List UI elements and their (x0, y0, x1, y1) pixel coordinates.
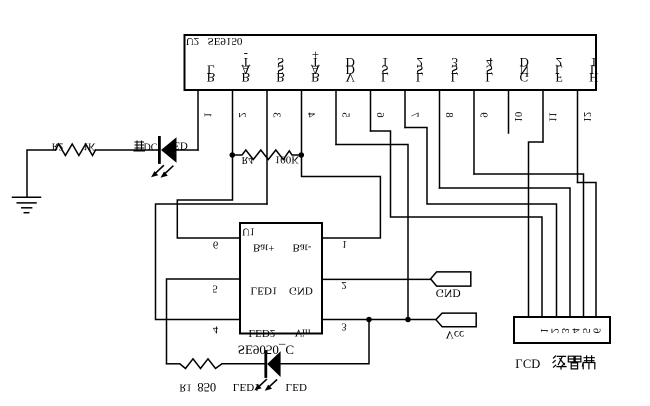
pin 4 stub U2 (302, 90, 317, 154)
svg-text:LS1: LS1 (381, 55, 389, 85)
LED LED1 emission arrows (254, 380, 276, 391)
svg-text:LED1: LED1 (233, 381, 260, 393)
svg-text:3: 3 (271, 112, 282, 117)
svg-text:LED1: LED1 (251, 285, 278, 297)
svg-text:U2: U2 (186, 35, 199, 47)
pin 8 stub U2 (440, 90, 455, 188)
wire node C to bottom rail (281, 320, 369, 364)
svg-text:VDD: VDD (346, 55, 356, 85)
svg-text:6: 6 (374, 112, 385, 117)
pin 11 stub U2 (543, 90, 558, 142)
svg-text:1K: 1K (83, 141, 96, 152)
resistor R2 1K zigzag (56, 144, 96, 156)
svg-text:R4: R4 (242, 154, 254, 165)
wire net pin12 HL1 to LCD (578, 183, 597, 318)
Vcc connector flag (436, 313, 476, 327)
svg-text:2: 2 (549, 328, 560, 333)
pin 10 stub U2 (509, 90, 524, 133)
svg-text:11: 11 (547, 112, 558, 122)
svg-text:LS3: LS3 (451, 55, 459, 85)
svg-text:BL: BL (207, 62, 216, 84)
GND connector flag (431, 272, 471, 286)
svg-text:LCD: LCD (515, 356, 540, 370)
pin 9 stub U2 (474, 90, 489, 174)
svg-text:5: 5 (340, 112, 351, 117)
svg-text:6: 6 (213, 239, 218, 250)
LCD connector body (514, 317, 610, 343)
svg-text:12: 12 (581, 112, 592, 123)
svg-text:1: 1 (342, 238, 347, 249)
pin 7 stub U2 (405, 90, 420, 128)
wire LED to resistor R2 (96, 149, 159, 151)
resistor R1 850 zigzag (180, 359, 222, 369)
wire net pin5 VDD to Vcc rail (336, 145, 408, 320)
svg-text:LS4: LS4 (485, 55, 493, 85)
LED LED1 (points left) (266, 351, 281, 377)
wire U1 pin5 to resistor R1 (167, 279, 241, 364)
IC U1 body (240, 223, 322, 334)
svg-text:Vin: Vin (295, 327, 311, 339)
resistor R4 100K zigzag (232, 150, 301, 160)
IC U2 SE9150 body (185, 35, 597, 90)
svg-text:4: 4 (305, 112, 316, 118)
LED D2 emission arrows (151, 166, 173, 178)
junction dot node D (405, 317, 411, 323)
pin 3 stub U2 (267, 90, 282, 204)
ground symbol (13, 197, 41, 212)
svg-text:Bat+: Bat+ (253, 242, 274, 254)
svg-text:Vcc: Vcc (446, 328, 465, 340)
svg-text:LED2: LED2 (248, 327, 275, 339)
svg-text:ED: ED (173, 140, 188, 152)
svg-text:GND: GND (520, 55, 530, 85)
svg-text:4: 4 (213, 324, 219, 335)
svg-text:5: 5 (212, 282, 217, 293)
svg-text:10: 10 (512, 112, 523, 123)
svg-text:LED: LED (286, 381, 307, 393)
label CJK LCD panel glyphs (553, 356, 595, 369)
LED D2 (points left) (159, 137, 176, 163)
wire net pin8 LS3 to LCD (440, 188, 571, 317)
svg-text:U1: U1 (242, 226, 255, 237)
svg-text:8: 8 (443, 112, 454, 117)
pin 2 stub U2 (233, 90, 248, 154)
wire net pin4 to U1 pin1 (302, 155, 381, 238)
wire net pin3 to U1 pin4 (156, 204, 268, 320)
wire U1 pin3 Vcc rail (322, 319, 436, 321)
wire net pin2 to U1 pin6 (177, 155, 240, 238)
svg-text:3: 3 (559, 328, 570, 333)
svg-text:FL2: FL2 (555, 55, 563, 85)
svg-text:GND: GND (289, 285, 313, 297)
svg-text:7: 7 (409, 112, 420, 117)
svg-text:LS2: LS2 (416, 55, 424, 85)
wire R1 left end (167, 363, 180, 365)
svg-text:9: 9 (478, 112, 489, 117)
svg-text:6: 6 (591, 328, 602, 333)
svg-text:3: 3 (341, 321, 346, 332)
svg-text:5: 5 (580, 328, 591, 333)
svg-text:R1: R1 (179, 382, 191, 393)
svg-text:1: 1 (538, 328, 549, 333)
wire LED1 to resistor R1 (222, 363, 264, 365)
wire net pin7 LS2 to LCD (405, 128, 557, 318)
junction dot node C (366, 317, 372, 323)
svg-text:4: 4 (570, 327, 581, 333)
wire resistor R2 to ground (27, 150, 56, 197)
pin 12 stub U2 (578, 90, 593, 183)
junction dot node A (pin2 / R4 left) (230, 152, 236, 158)
svg-text:1: 1 (202, 112, 213, 117)
svg-text:2: 2 (236, 112, 247, 117)
LED D2 left label CJK blob (134, 141, 145, 151)
wire pin1 to LED D2 (177, 149, 199, 151)
wire net pin6 LS1 to LCD (371, 131, 543, 317)
svg-text:BSS: BSS (276, 55, 285, 85)
svg-text:2: 2 (341, 279, 346, 290)
pin 1 stub U2 (198, 90, 213, 150)
svg-text:100K: 100K (275, 154, 300, 166)
svg-text:Bat-: Bat- (293, 242, 312, 254)
junction dot node B (pin4 / R4 right) (299, 152, 305, 158)
svg-text:SE9150: SE9150 (208, 35, 243, 47)
pin 5 stub U2 (336, 90, 351, 145)
wire U1 pin2 to GND flag (322, 278, 431, 280)
svg-text:850: 850 (197, 380, 216, 394)
wire net pin9 LS4 to LCD (474, 174, 584, 317)
wire net pin11 FL2 to LCD (529, 142, 544, 317)
pin 6 stub U2 (371, 90, 386, 131)
svg-text:GND: GND (436, 287, 461, 299)
